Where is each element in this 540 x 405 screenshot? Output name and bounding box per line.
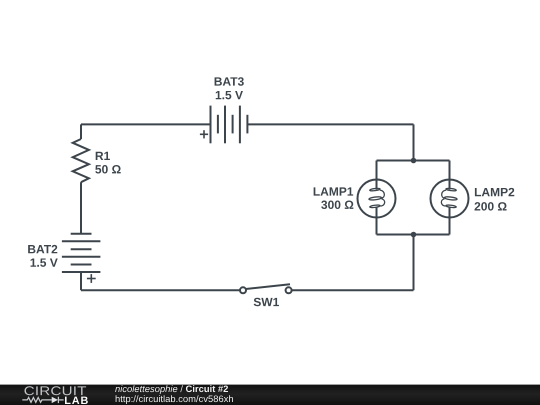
wire left vertical middle (R1 to BAT2) (80, 182, 82, 234)
wire LAMP1 bottom lead (376, 207, 378, 235)
label BAT3 name (215, 77, 244, 86)
wire top-left horizontal (BAT3 left lead) (81, 123, 210, 125)
node junction top (lamp top bar) (411, 158, 417, 164)
wire lamp top bar (377, 160, 450, 162)
wire bottom-left horizontal (to SW1) (81, 289, 240, 291)
wire top-right horizontal (BAT3 right lead) (247, 123, 413, 125)
CircuitLab logo wordmark LAB (65, 397, 88, 404)
label LAMP2 value 200 ohm (475, 202, 507, 211)
lamp LAMP1 (358, 180, 396, 218)
wire left vertical lower (BAT2 to bottom rail) (80, 272, 82, 290)
wire bottom-right horizontal (SW1 to right rail) (292, 289, 414, 291)
label SW1 name (254, 298, 279, 307)
resistor R1 (73, 139, 89, 182)
wire right vertical lower (bottom rail to lamp bottom bar) (413, 235, 415, 291)
label BAT2 value 1.5 V (31, 258, 58, 266)
label BAT3 value 1.5 V (216, 91, 243, 99)
label LAMP1 value 300 ohm (321, 201, 353, 210)
CircuitLab logo wordmark CIRCUIT (24, 386, 86, 395)
footer attribution line (115, 385, 228, 394)
label BAT2 name (28, 245, 57, 253)
switch SW1 (240, 284, 292, 293)
wire lamp bottom bar (377, 234, 450, 236)
BAT3 plus polarity mark (200, 130, 208, 138)
lamp LAMP2 (431, 180, 469, 218)
battery BAT2 (62, 234, 101, 272)
label R1 value 50 ohm (95, 165, 120, 174)
wire left vertical upper (80, 124, 82, 139)
label LAMP1 name (314, 187, 354, 195)
BAT2 plus polarity mark (87, 274, 96, 283)
wire LAMP2 bottom lead (449, 207, 451, 235)
label LAMP2 name (475, 188, 514, 196)
label R1 name (96, 152, 110, 160)
CircuitLab logo squiggle (resistor + diode) (22, 397, 63, 403)
wire LAMP1 top lead (376, 161, 378, 190)
battery BAT3 (211, 106, 248, 144)
wire right vertical upper (top rail to lamp top bar) (413, 124, 415, 160)
footer url line (116, 395, 233, 404)
node junction bottom (lamp bottom bar) (411, 232, 417, 238)
wire LAMP2 top lead (449, 161, 451, 190)
